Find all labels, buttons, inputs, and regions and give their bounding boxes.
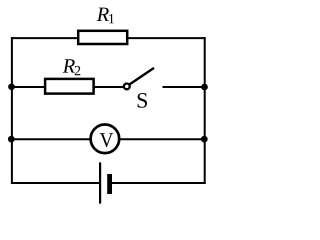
label S — [138, 93, 147, 108]
resistor R2 — [45, 79, 94, 94]
wire voltmeter left segment — [11, 138, 91, 140]
junction dot right voltmeter — [201, 136, 208, 143]
junction dot left voltmeter — [8, 136, 15, 143]
junction dot right middle — [201, 84, 208, 91]
battery long plate — [99, 162, 101, 203]
wire middle right segment — [163, 86, 206, 88]
wire left vertical — [11, 37, 13, 184]
battery short thick plate — [107, 174, 112, 194]
switch S blade — [130, 68, 154, 85]
label R2 — [63, 59, 81, 75]
wire middle left segment — [11, 86, 45, 88]
voltmeter V — [91, 125, 120, 154]
wire top right segment — [128, 37, 206, 39]
label R1 — [97, 8, 114, 24]
junction dot left middle — [8, 83, 15, 90]
switch S pivot — [124, 84, 130, 90]
wire right vertical — [204, 37, 206, 184]
resistor R1 — [78, 31, 127, 44]
wire voltmeter right segment — [119, 138, 206, 140]
wire top left segment — [11, 37, 78, 39]
label V — [100, 133, 114, 147]
wire bottom left segment — [11, 182, 100, 184]
wire middle mid segment — [94, 86, 123, 88]
wire bottom right segment — [112, 182, 206, 184]
